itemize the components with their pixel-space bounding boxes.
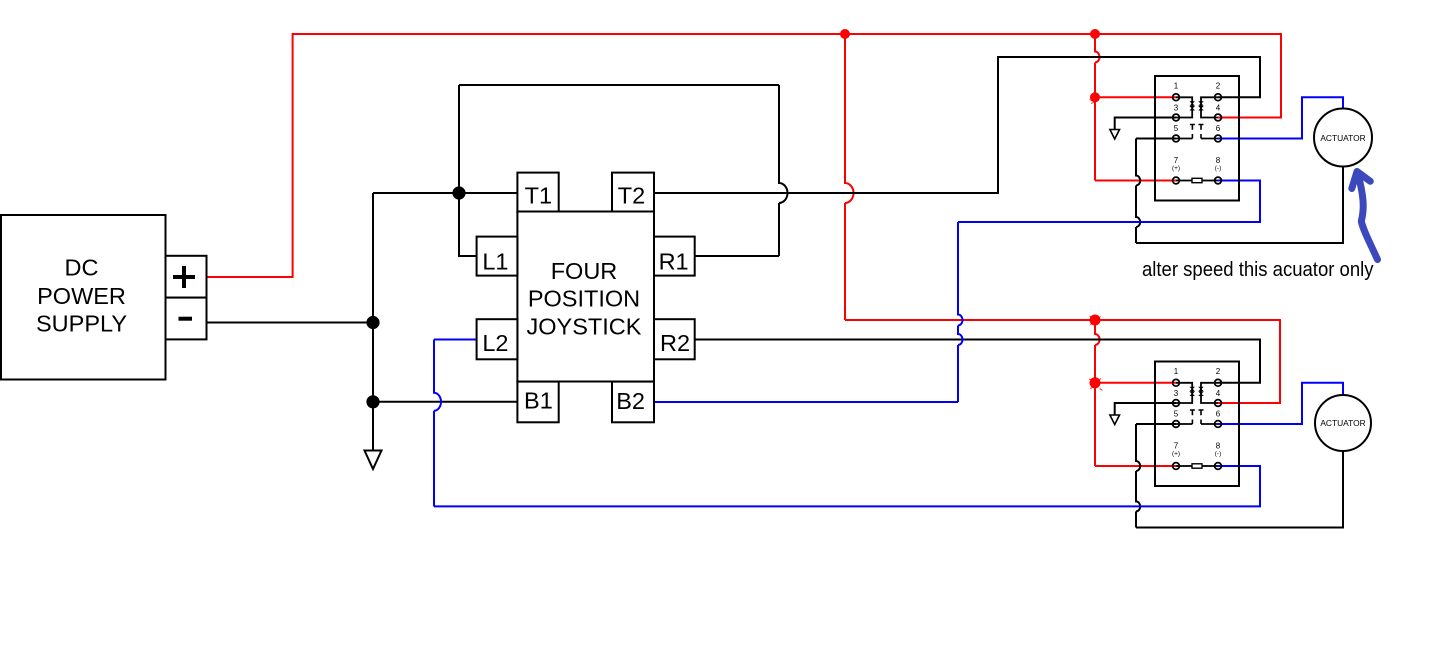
svg-text:4: 4 [1216, 104, 1221, 113]
svg-text:POSITION: POSITION [528, 286, 640, 312]
svg-text:(+): (+) [1172, 451, 1180, 458]
svg-text:B2: B2 [616, 388, 645, 414]
svg-text:2: 2 [1216, 367, 1221, 376]
svg-text:1: 1 [1174, 82, 1179, 91]
svg-text:alter speed this acuator only: alter speed this acuator only [1142, 259, 1374, 281]
svg-text:7: 7 [1174, 442, 1179, 451]
svg-text:T2: T2 [618, 183, 645, 209]
svg-text:2: 2 [1216, 82, 1221, 91]
svg-text:R1: R1 [659, 249, 689, 275]
svg-text:1: 1 [1174, 367, 1179, 376]
svg-text:8: 8 [1216, 156, 1221, 165]
svg-text:POWER: POWER [37, 283, 126, 309]
svg-text:6: 6 [1216, 124, 1221, 133]
svg-text:8: 8 [1216, 442, 1221, 451]
svg-text:6: 6 [1216, 410, 1221, 419]
svg-text:B1: B1 [524, 388, 553, 414]
svg-text:ACTUATOR: ACTUATOR [1320, 133, 1365, 143]
svg-text:JOYSTICK: JOYSTICK [527, 313, 642, 339]
svg-text:7: 7 [1174, 156, 1179, 165]
svg-text:(+): (+) [1172, 165, 1180, 172]
svg-text:T1: T1 [525, 183, 552, 209]
svg-text:5: 5 [1174, 124, 1179, 133]
svg-text:(-): (-) [1215, 165, 1222, 172]
svg-text:FOUR: FOUR [551, 258, 618, 284]
svg-text:SUPPLY: SUPPLY [36, 311, 127, 337]
svg-text:R2: R2 [660, 330, 690, 356]
svg-text:4: 4 [1216, 389, 1221, 398]
svg-text:5: 5 [1174, 410, 1179, 419]
svg-text:(-): (-) [1215, 451, 1222, 458]
svg-text:3: 3 [1174, 389, 1179, 398]
svg-text:ACTUATOR: ACTUATOR [1320, 418, 1365, 428]
svg-text:L2: L2 [482, 330, 508, 356]
svg-text:3: 3 [1174, 104, 1179, 113]
svg-text:L1: L1 [482, 249, 508, 275]
svg-text:DC: DC [65, 255, 99, 281]
